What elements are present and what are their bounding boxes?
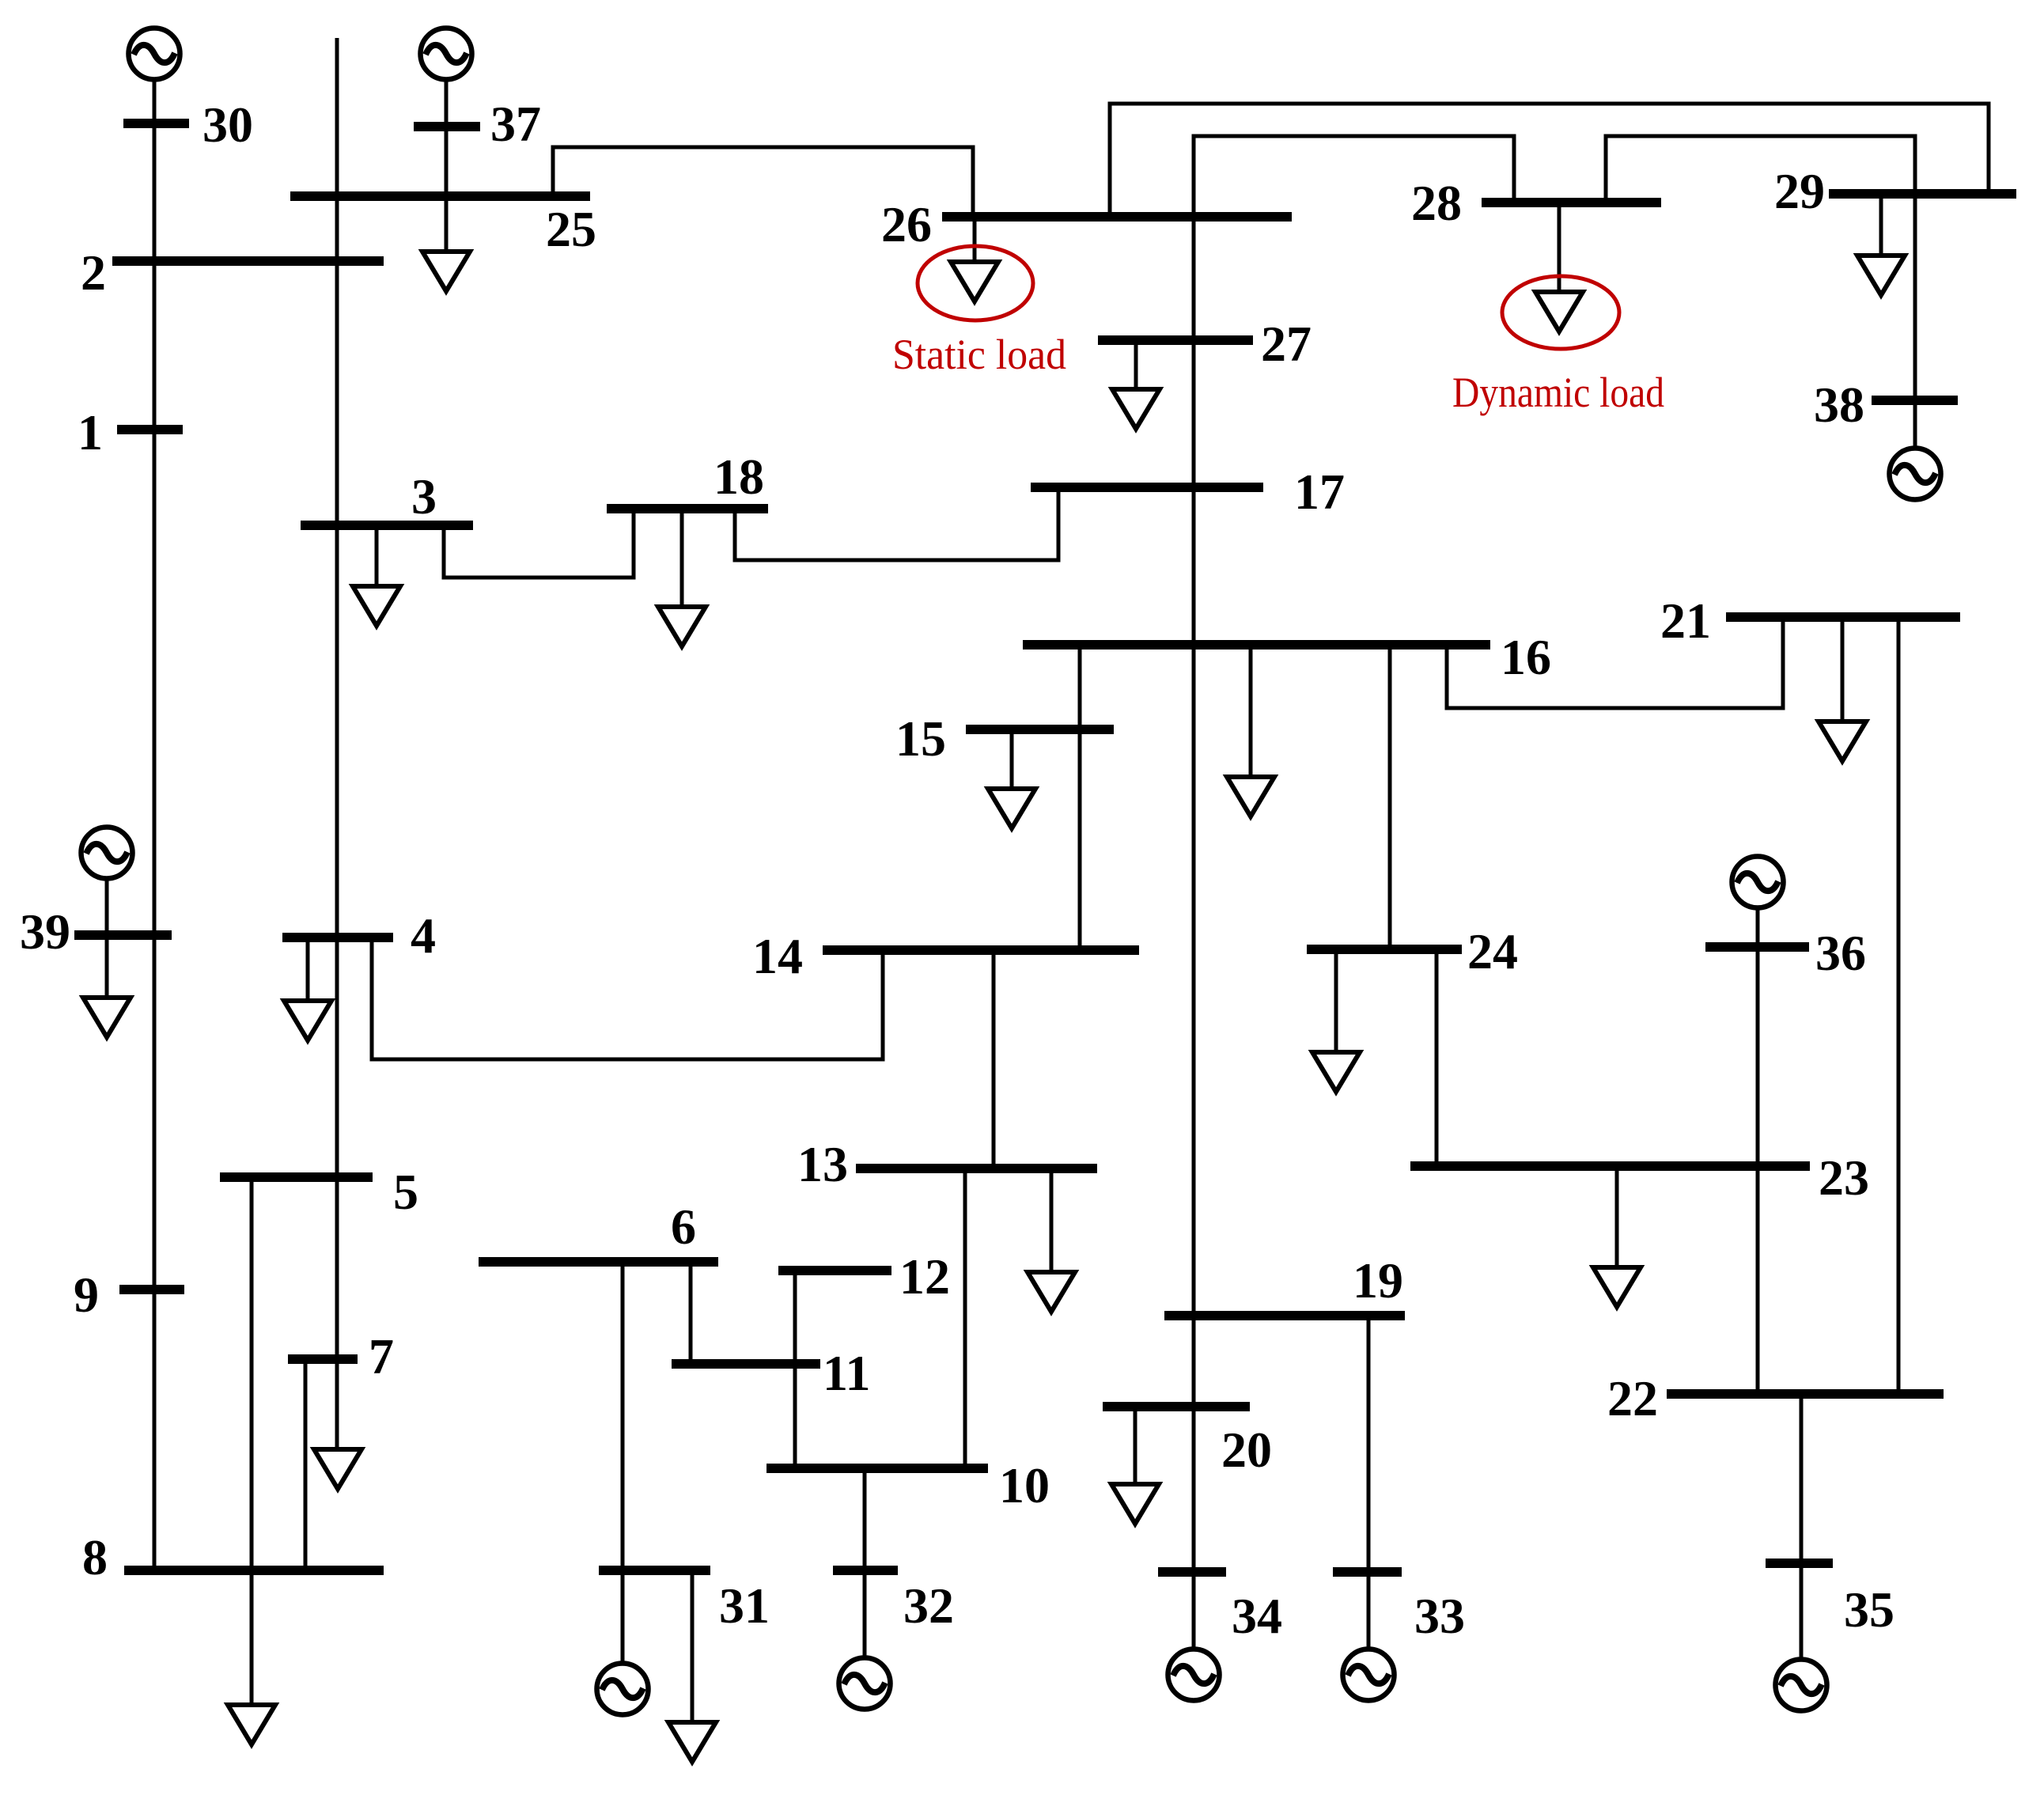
svg-text:6: 6 (671, 1199, 696, 1255)
wire line 1-9-8 (left trunk from G30) (153, 80, 157, 1570)
bus 2 (112, 256, 384, 266)
wire G34 lead (1192, 1572, 1196, 1649)
bus 7 (288, 1354, 358, 1364)
bus 21 (1726, 612, 1960, 622)
generator G33 (1343, 1649, 1395, 1701)
wire line 4-14 (372, 937, 883, 1059)
svg-text:34: 34 (1232, 1588, 1282, 1644)
load bus16 (1227, 777, 1274, 816)
svg-text:25: 25 (546, 201, 596, 257)
wire line 12-11-10 (793, 1271, 797, 1468)
bus 22 (1667, 1389, 1944, 1399)
wire line 2-25-3-4-5 trunk (335, 38, 339, 1449)
svg-text:2: 2 (81, 244, 106, 301)
svg-text:Static load: Static load (892, 331, 1066, 378)
svg-text:30: 30 (203, 97, 253, 153)
wire line 29-38 and G38 lead (1913, 194, 1917, 448)
generator G37 (421, 28, 472, 80)
wire line 5-8 and load stub bus8 (250, 1177, 254, 1705)
svg-text:8: 8 (82, 1529, 108, 1585)
wire line 28-29 (1606, 136, 1915, 203)
bus 26 (942, 212, 1292, 222)
bus 32 (833, 1566, 898, 1575)
svg-text:28: 28 (1411, 175, 1462, 231)
generator G31 (597, 1664, 649, 1715)
svg-text:24: 24 (1467, 923, 1518, 979)
load bus8 (228, 1705, 275, 1744)
generator G36 (1732, 857, 1784, 908)
bus 25 (290, 191, 590, 201)
wire load stub bus13 (1050, 1168, 1054, 1272)
bus 12 (778, 1266, 891, 1275)
load bus24 (1312, 1052, 1360, 1092)
wire line 25-26 (553, 147, 973, 217)
bus 20 (1103, 1402, 1250, 1411)
bus 34 (1158, 1567, 1226, 1577)
wire load stub bus16 (1249, 645, 1253, 777)
bus 35 (1766, 1559, 1833, 1568)
wire load stub bus23 (1615, 1166, 1619, 1267)
svg-text:5: 5 (393, 1164, 418, 1220)
svg-text:32: 32 (903, 1577, 954, 1634)
svg-text:27: 27 (1261, 316, 1312, 372)
wire load stub bus27 (1134, 340, 1138, 389)
bus 11 (672, 1359, 820, 1369)
bus 29 (1829, 189, 2016, 199)
wire G39 lead (105, 879, 109, 935)
bus 3 (301, 521, 473, 530)
bus 9 (119, 1285, 184, 1294)
svg-text:10: 10 (999, 1457, 1050, 1513)
bus 16 (1023, 640, 1490, 650)
wire line 22-35 and G35 lead (1800, 1394, 1804, 1659)
load bus20 (1111, 1484, 1159, 1524)
svg-text:17: 17 (1294, 464, 1345, 520)
svg-text:39: 39 (20, 903, 70, 960)
bus 28 (1482, 198, 1661, 207)
wire line 26-29 (1110, 104, 1989, 217)
bus 6 (479, 1257, 718, 1267)
bus 23 (1410, 1161, 1810, 1171)
wire line 36-23-22 and G36 lead (1756, 908, 1760, 1394)
svg-text:20: 20 (1221, 1422, 1272, 1478)
wire line 3-18 (444, 509, 634, 578)
generator G32 (839, 1658, 891, 1710)
load bus18 (658, 607, 706, 646)
wire load stub bus29 (1879, 194, 1883, 256)
wire line 16-21 (1447, 617, 1783, 708)
wire line 6-31 and G31 lead (621, 1262, 625, 1663)
red ellipse around static load at bus 26 (918, 246, 1033, 320)
wire load stub bus21 (1841, 617, 1845, 721)
svg-text:9: 9 (74, 1267, 99, 1323)
svg-text:15: 15 (895, 710, 946, 767)
svg-text:29: 29 (1774, 163, 1825, 219)
load bus31 (668, 1722, 716, 1762)
svg-text:13: 13 (797, 1136, 848, 1192)
svg-text:23: 23 (1819, 1149, 1869, 1206)
bus 24 (1307, 945, 1462, 954)
svg-text:16: 16 (1501, 629, 1551, 685)
wire load stub bus24 (1334, 949, 1338, 1052)
load bus27 (1112, 389, 1160, 429)
svg-text:14: 14 (752, 928, 803, 984)
svg-text:38: 38 (1814, 377, 1864, 433)
wire load stub bus28 (dynamic load) (1558, 203, 1561, 292)
bus 36 (1705, 942, 1809, 952)
bus 17 (1031, 483, 1263, 492)
bus 38 (1872, 396, 1958, 405)
svg-text:11: 11 (823, 1345, 870, 1401)
wire line 13-10 (963, 1168, 967, 1468)
svg-text:36: 36 (1815, 925, 1866, 981)
svg-text:37: 37 (490, 96, 541, 152)
svg-text:1: 1 (78, 404, 103, 460)
wire line 19-33 and G33 lead (1367, 1316, 1371, 1649)
bus 30 (123, 119, 189, 128)
svg-text:Dynamic load: Dynamic load (1452, 369, 1664, 416)
wire load stub bus26 (static load) (973, 217, 977, 262)
bus 8 (124, 1566, 384, 1575)
load bus29 (1857, 256, 1905, 295)
svg-text:19: 19 (1353, 1252, 1403, 1309)
load bus25 (422, 252, 470, 291)
wire line 16-24 (1388, 645, 1392, 949)
bus 1 (117, 425, 183, 434)
wire G37 lead / line 25-37 / load stub bus25 (445, 81, 449, 252)
bus 4 (282, 933, 393, 942)
wire line 24-23 (1435, 949, 1439, 1166)
svg-text:33: 33 (1414, 1588, 1465, 1644)
wire line 26-28 (1194, 136, 1514, 217)
wire load stub bus15 (1010, 729, 1014, 789)
wire load stub bus18 (680, 509, 684, 607)
load bus39 (83, 998, 131, 1037)
bus 33 (1333, 1567, 1402, 1577)
generator G34 (1168, 1649, 1220, 1701)
wire load stub bus39 (105, 935, 109, 998)
wire load stub bus31 (691, 1570, 695, 1722)
svg-text:22: 22 (1607, 1370, 1658, 1426)
wire line 10-32 and G32 lead (863, 1468, 867, 1657)
bus 5 (220, 1172, 373, 1182)
wire line 21-22 (1897, 617, 1901, 1394)
bus 10 (766, 1464, 988, 1473)
load bus21 (1819, 721, 1866, 761)
svg-text:4: 4 (411, 907, 436, 964)
bus 15 (966, 725, 1114, 734)
bus 18 (607, 504, 768, 513)
load bus15 (988, 789, 1035, 828)
svg-text:31: 31 (719, 1577, 770, 1634)
generator G30 (129, 28, 180, 80)
bus 39 (74, 930, 172, 940)
generator G38 (1890, 449, 1941, 500)
svg-text:26: 26 (881, 196, 932, 252)
load bus4 (284, 1001, 331, 1040)
wire load stub bus20 (1134, 1407, 1137, 1484)
load bus23 (1593, 1267, 1641, 1307)
bus 31 (599, 1566, 710, 1575)
generator G39 (81, 828, 133, 879)
svg-text:12: 12 (899, 1248, 950, 1305)
bus 37 (414, 122, 480, 131)
load bus7 (314, 1449, 361, 1489)
load bus13 (1028, 1272, 1075, 1312)
wire line 16-15-14 (1078, 645, 1082, 950)
wire line 14-13 (992, 950, 996, 1168)
red ellipse around dynamic load at bus 28 (1502, 276, 1619, 349)
bus 27 (1098, 335, 1253, 345)
load bus3 (353, 586, 400, 626)
load bus26 static (951, 262, 998, 301)
svg-text:18: 18 (714, 449, 764, 505)
generator G35 (1776, 1660, 1827, 1711)
svg-text:21: 21 (1660, 593, 1711, 649)
wire line 7-8 (304, 1359, 308, 1570)
svg-text:35: 35 (1844, 1581, 1894, 1638)
svg-text:3: 3 (411, 468, 437, 525)
load bus28 dynamic (1535, 292, 1583, 331)
svg-text:7: 7 (369, 1328, 394, 1384)
bus 13 (856, 1164, 1097, 1173)
wire load stub bus3 (375, 525, 379, 586)
bus 14 (823, 945, 1139, 955)
bus 19 (1164, 1311, 1405, 1320)
wire load stub bus4 (306, 937, 310, 1001)
wire line 26-27-17-16-19-20-34 trunk (1192, 217, 1196, 1572)
wire line 17-18 (735, 487, 1058, 560)
wire line 6-11 (689, 1262, 693, 1364)
